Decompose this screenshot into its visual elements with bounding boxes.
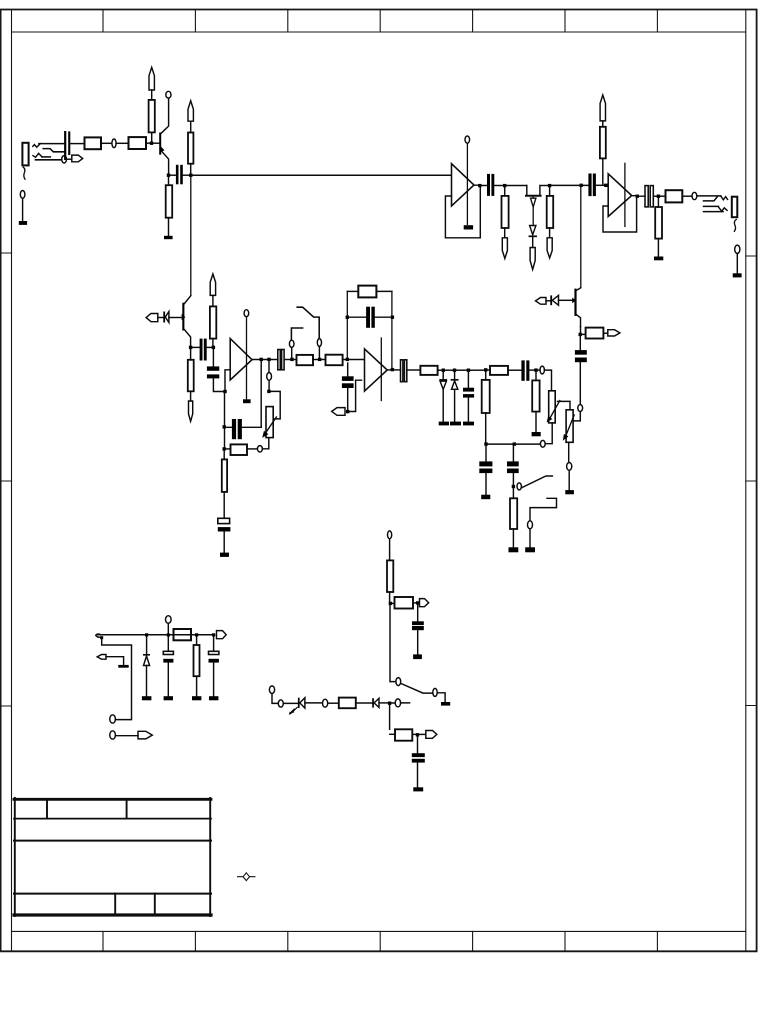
capacitor C7 plate 1 (hollow) xyxy=(278,350,281,370)
junction clip node 3 xyxy=(467,369,470,372)
capacitor C5 plate 2 xyxy=(238,419,242,439)
wire node2 to node3 xyxy=(456,369,466,371)
capacitor C6 plate 1 (hollow) xyxy=(218,518,230,523)
transistor Q3 bar xyxy=(574,289,576,316)
junction C5 left xyxy=(223,425,226,428)
wire node to R17 xyxy=(512,488,514,498)
junction Q3 emitter xyxy=(579,333,582,336)
resistor R26 xyxy=(339,698,356,709)
wire D4 to Q3 base xyxy=(559,299,572,301)
wire SW4 throw to ground xyxy=(437,693,445,702)
resistor R3 xyxy=(149,100,155,132)
resistor R5 xyxy=(188,133,193,164)
diode D1 triangle xyxy=(165,312,169,323)
net flag input sleeve (right) xyxy=(72,155,83,162)
wire CON1 to ground xyxy=(22,198,24,221)
wire C8 to right rail xyxy=(375,316,390,318)
resistor R10 xyxy=(297,355,314,365)
wire R8 to circle xyxy=(247,448,257,450)
wire node D to R10 xyxy=(294,359,297,361)
node circle SW4 pole xyxy=(396,678,401,686)
jack J2 sleeve line 1 xyxy=(704,205,719,207)
title block outer frame xyxy=(14,798,211,801)
net flag (C9 bottom, left) xyxy=(332,408,345,416)
jack J2 sleeve line 2 xyxy=(704,211,724,213)
wire bus segment 1 xyxy=(488,443,512,445)
diode D5 bar xyxy=(529,235,536,237)
wire circle to ground xyxy=(568,470,570,490)
wire R10 to node E xyxy=(313,359,318,361)
junction clip node 1 xyxy=(442,369,445,372)
capacitor C17 plate 1 xyxy=(588,174,591,197)
node circle bus right xyxy=(540,440,545,447)
Q2 emitter lead xyxy=(184,330,190,346)
wire U0 power to ground xyxy=(466,143,468,224)
wire arrow to R6 xyxy=(212,295,214,306)
wire C21 to ground xyxy=(167,663,169,696)
title block row line 3 xyxy=(14,893,211,895)
CON2 node circle xyxy=(735,245,740,253)
diode D3 bar xyxy=(452,379,458,381)
supply arrow up (U3 bias) xyxy=(600,95,605,121)
ground D8 xyxy=(142,696,152,700)
capacitor C1 plate 2 xyxy=(68,131,70,155)
jack J1 tip contact zigzag xyxy=(33,144,40,148)
wire bus segment 2 xyxy=(516,443,540,445)
resistor R11 xyxy=(326,355,343,366)
wire C5 to U1-out drop xyxy=(242,426,261,428)
junction node H xyxy=(503,184,506,187)
wire node H to J-FET xyxy=(507,185,527,187)
junction P1 wiper xyxy=(267,390,270,393)
wire SW3 circle to ground xyxy=(529,529,531,547)
capacitor C3 plate 1 xyxy=(200,339,203,361)
switch SW3 throw bracket xyxy=(530,498,557,521)
wire C14 down xyxy=(512,473,514,485)
junction bus left xyxy=(484,442,487,445)
capacitor C4 plate 2 xyxy=(207,374,219,378)
wire U2 out to C10 xyxy=(394,369,400,371)
junction base divider xyxy=(150,142,153,145)
diode D5 triangle (apex down) xyxy=(530,226,536,235)
node circle rail return xyxy=(110,715,116,723)
wire C22 to ground xyxy=(213,663,215,696)
wire D6 to circle3 xyxy=(305,702,323,704)
node circle P1 wiper xyxy=(267,373,272,381)
CON1 sleeve hook xyxy=(23,167,25,179)
ground P3 xyxy=(565,490,574,494)
wire U2 output xyxy=(387,369,390,371)
node circle Q1 collector xyxy=(166,91,171,98)
output connector CON2 xyxy=(732,197,738,218)
resistor R4 xyxy=(166,185,173,218)
Q1 emitter arrow xyxy=(161,146,165,152)
wire C13 to ground xyxy=(485,473,487,494)
junction node G xyxy=(534,368,537,371)
diode D1 cathode bar xyxy=(163,312,165,323)
net flag (node N right) xyxy=(426,731,437,739)
resistor R16 xyxy=(532,380,539,411)
wire node K down to switch xyxy=(390,605,396,681)
right margin row ticks xyxy=(746,256,757,706)
wire junction to C15 xyxy=(579,336,581,350)
capacitor C20 plate 2 xyxy=(412,759,425,763)
wire C7 to node D xyxy=(284,359,290,361)
junction feedback right xyxy=(391,316,394,319)
ground SW3 xyxy=(525,547,535,552)
wire main line to buffer U1 xyxy=(193,174,452,176)
junction U0 out xyxy=(478,184,481,187)
net flag (node L right) xyxy=(420,599,429,607)
diode D4 triangle xyxy=(552,295,558,305)
wire R2 to Q1 base xyxy=(146,142,159,144)
op-amp U1 triangle xyxy=(230,339,252,380)
wire CON2 to ground xyxy=(736,254,738,274)
wire circle corner xyxy=(272,694,278,704)
wire JFET to node I xyxy=(541,185,548,187)
capacitor C16 plate 1 xyxy=(487,174,490,196)
wire flag to D4 xyxy=(546,300,550,302)
wire node J to R23 xyxy=(660,195,665,197)
wire P1wiper-chain to P3 top xyxy=(558,401,571,409)
wire circle4 stub xyxy=(391,702,409,704)
jack J2 tip zigzag xyxy=(721,196,728,200)
op-amp U0 triangle (buffer) xyxy=(452,164,475,206)
net flag (aux, left) xyxy=(97,655,106,660)
wire circle2 to D6 xyxy=(283,702,298,704)
capacitor C22 plate 2 xyxy=(209,659,219,663)
wire U1 out down to C5 line xyxy=(260,361,262,427)
top margin column ticks xyxy=(103,10,657,33)
wire C19 to ground xyxy=(417,630,419,654)
wire circle to rail xyxy=(167,623,169,633)
junction node B xyxy=(212,346,215,349)
wire R5 to node A xyxy=(190,164,192,174)
left margin row ticks xyxy=(1,253,12,706)
feedback right rail xyxy=(391,291,393,367)
wire junction to D8 xyxy=(146,637,148,655)
wire node C down xyxy=(224,393,226,447)
wire R6 to node B xyxy=(212,339,214,346)
wire node4 to R14 xyxy=(485,372,487,380)
wire U1 power to ground xyxy=(246,317,248,399)
capacitor C12 plate 2 xyxy=(526,360,529,380)
resistor R19 xyxy=(502,196,509,228)
capacitor C19 plate 2 xyxy=(412,626,424,630)
diode D7 cathode bar xyxy=(372,698,374,707)
potentiometer P3 body xyxy=(566,410,573,443)
input connector CON1 xyxy=(22,143,28,166)
resistor R23 xyxy=(666,190,683,202)
capacitor C20 plate 1 xyxy=(412,753,425,757)
wire C9 to junction xyxy=(347,388,349,410)
junction U3 out xyxy=(636,195,639,198)
junction Q2 emitter xyxy=(189,346,192,349)
potentiometer P2 body xyxy=(549,391,556,423)
junction node I xyxy=(548,184,551,187)
supply arrow up (node A) xyxy=(188,101,193,121)
wire junction to C21 xyxy=(167,637,169,652)
node circle bias 2 xyxy=(278,700,283,707)
wire U3 out xyxy=(632,195,645,198)
wire arrow to R3 xyxy=(151,90,153,100)
wire node E to R11 xyxy=(321,359,325,361)
node circle bias input xyxy=(269,686,274,694)
capacitor C3 plate 2 xyxy=(204,339,207,361)
resistor R29 xyxy=(194,645,200,676)
capacitor C19 plate 1 xyxy=(412,621,424,625)
diode D7 triangle xyxy=(374,698,379,707)
diode D2 bar xyxy=(440,379,446,381)
wire node J to R22 xyxy=(657,198,659,207)
ground C20 xyxy=(413,787,423,791)
junction U1 out 2 xyxy=(267,358,270,361)
wire R1 to node xyxy=(101,142,112,144)
U3 crossing line xyxy=(624,163,626,226)
capacitor C8 plate 1 xyxy=(366,307,370,328)
ground C19 xyxy=(413,654,422,659)
capacitor C21 plate 2 xyxy=(163,659,173,663)
node circle supply top xyxy=(388,531,392,539)
wire circle3 to R26 xyxy=(328,702,339,704)
wire corner into R27 xyxy=(390,733,395,735)
diode D3 wire from node2 xyxy=(454,372,456,380)
wire circle to node E xyxy=(318,346,320,357)
wire C6 to ground xyxy=(223,532,225,553)
wire emitter to R4 xyxy=(168,177,170,185)
ground below C6 xyxy=(220,553,229,557)
net flag (R18 right) xyxy=(608,330,620,336)
J1 tip spring contact xyxy=(43,149,64,152)
wire R26 to D7 xyxy=(356,702,373,704)
wire D8 to ground xyxy=(146,666,148,697)
net flag (rail end, right) xyxy=(217,631,227,639)
junction node D xyxy=(290,358,293,361)
capacitor C6 plate 2 xyxy=(218,527,231,531)
ground input sleeve xyxy=(19,221,27,225)
wire bus left to C13 xyxy=(485,446,487,462)
wire node1 to node2 xyxy=(445,369,453,371)
wire C11 to ground xyxy=(467,398,469,422)
junction feedback left xyxy=(346,316,349,319)
wire node I to C17 xyxy=(551,184,588,186)
title block bottom row dividers xyxy=(115,894,155,915)
resistor R27 xyxy=(395,729,412,740)
ground D2 xyxy=(439,422,449,426)
ground D3 xyxy=(450,422,461,426)
supply arrow up (Q1 collector) xyxy=(149,67,154,90)
wire D3 to ground xyxy=(454,389,456,421)
J1 sleeve line xyxy=(35,159,61,161)
resistor R9 xyxy=(222,459,227,492)
node circle output xyxy=(692,192,697,199)
junction main node A xyxy=(189,174,192,177)
wire node N to C20 xyxy=(417,737,419,754)
wire node G to circle xyxy=(538,369,540,371)
capacitor C7 plate 2 (hollow) xyxy=(282,350,285,370)
capacitor C5 plate 1 xyxy=(232,419,236,439)
junction R29 top xyxy=(195,633,198,636)
resistor R1 xyxy=(85,137,102,149)
ground U1 xyxy=(243,399,251,403)
capacitor C2 plate 1 xyxy=(176,165,179,185)
ground C13 xyxy=(481,495,490,500)
wire main line down to Q3 xyxy=(580,187,582,287)
junction node C xyxy=(223,390,226,393)
node circle SW2 pole xyxy=(517,483,521,490)
title block row line 2 xyxy=(14,840,211,842)
JFET Q4 channel bar xyxy=(526,195,541,197)
wire to R12 xyxy=(347,290,358,292)
wire R16 to ground xyxy=(535,412,537,432)
wire left rail to C8 xyxy=(349,316,366,318)
node circle above D xyxy=(289,340,294,347)
Q2 base arrow xyxy=(182,314,186,321)
wire junction to U2 lower input xyxy=(350,380,362,411)
ground U0 xyxy=(464,225,473,229)
junction node F (U2 in) xyxy=(346,358,349,361)
net flag (Q2 base, left) xyxy=(146,314,158,322)
wire D5 down xyxy=(532,236,534,247)
wire U1 output xyxy=(252,359,278,361)
capacitor C1 plate 1 xyxy=(64,131,66,160)
capacitor C2 plate 2 xyxy=(180,165,183,185)
capacitor C14 plate 2 xyxy=(507,469,519,474)
wire R3 to base junction xyxy=(151,132,153,141)
wire C20 to ground xyxy=(417,763,419,788)
capacitor C15 plate 2 xyxy=(575,358,587,363)
Q1 collector lead xyxy=(161,98,168,133)
wire circle to R24 xyxy=(389,539,391,561)
node circle above C21 xyxy=(166,616,172,624)
capacitor C21 plate 1 (hollow) xyxy=(163,651,173,654)
junction node J xyxy=(657,195,660,198)
ground R17 xyxy=(509,547,519,552)
junction rail start xyxy=(100,636,103,639)
resistor R21 xyxy=(600,127,606,159)
wire circle to P2 top xyxy=(544,370,551,391)
photodiode D6 cathode bar xyxy=(298,698,300,708)
wire node N to flag xyxy=(419,733,426,735)
wire junction to R18 xyxy=(581,327,586,335)
wire node3 to node4 xyxy=(470,369,484,371)
resistor R18 xyxy=(586,328,604,339)
capacitor C9 plate 2 xyxy=(342,383,354,388)
jack J2 tip contact xyxy=(704,196,718,201)
wire R17 to ground xyxy=(512,529,514,547)
Q3 collector lead xyxy=(577,288,581,291)
capacitor C9 plate 1 xyxy=(342,376,354,381)
wire junction to C3 xyxy=(192,346,199,348)
wire junction2 to wiper circle xyxy=(268,361,270,372)
wire C15 to circle xyxy=(579,362,581,404)
wire bus mid to C14 xyxy=(512,446,514,462)
wire node I to R20 xyxy=(549,187,551,196)
ground C11 xyxy=(463,422,474,426)
wire R15 to C12 xyxy=(508,369,521,371)
title block row line 1 xyxy=(14,818,211,820)
op-amp U2 triangle xyxy=(365,349,388,391)
wire U0 out xyxy=(474,184,487,186)
Q3 emitter lead xyxy=(577,315,581,327)
node circle P3 bottom xyxy=(567,463,572,471)
wire node3 to C11 xyxy=(467,372,469,388)
wire flag to stub ground xyxy=(106,657,124,665)
junction D8 top xyxy=(145,633,148,636)
resistor R7 xyxy=(188,360,194,392)
node circle N1 xyxy=(112,139,116,148)
P3 wiper arrow line xyxy=(566,415,575,437)
junction switch node xyxy=(512,485,515,488)
wire junction to R8 xyxy=(226,448,231,450)
wire C1 to R1 xyxy=(70,143,84,145)
node circle bias 3 xyxy=(323,699,328,707)
wire R13 to clip nodes xyxy=(438,369,442,371)
resistor R2 xyxy=(129,137,147,149)
P1 wiper arrow line xyxy=(265,417,276,434)
Q3 base arrow xyxy=(572,298,576,304)
CON2 sleeve hook xyxy=(734,220,736,232)
U3 feedback box xyxy=(603,198,637,232)
wire circle to jack J2 xyxy=(697,195,721,197)
wire node A down to Q2 collector xyxy=(190,177,192,296)
Q2 collector lead xyxy=(184,296,190,304)
J1 ring contact zigzag xyxy=(33,153,42,157)
wire node F to U2 xyxy=(349,359,364,361)
resistor R14 xyxy=(482,380,490,413)
supply arrow up (node B) xyxy=(210,274,215,295)
capacitor C18 plate 2 (hollow) xyxy=(650,186,653,207)
capacitor C12 plate 1 xyxy=(521,360,524,380)
capacitor C13 plate 2 xyxy=(479,469,492,474)
transistor Q2 bar xyxy=(182,303,184,331)
junction below C9 xyxy=(346,410,349,413)
node circle Q3 chain xyxy=(578,405,583,412)
junction main line (Q3 feed) xyxy=(580,184,583,187)
wire arrow to R21 xyxy=(602,121,604,127)
junction node N xyxy=(416,733,419,736)
resistor R13 xyxy=(420,366,437,375)
ground CON2 xyxy=(733,273,742,277)
wire R29 to ground xyxy=(196,676,198,696)
wire C17 to U3 xyxy=(596,184,608,186)
node circle R8 right xyxy=(257,446,262,452)
net flag (aux out, right) xyxy=(138,731,152,739)
JFET Q4 gate wire xyxy=(532,197,534,226)
wire R4 to ground xyxy=(168,218,170,236)
capacitor C18 plate 1 (hollow) xyxy=(645,186,648,207)
U2 crossing line xyxy=(380,338,382,401)
resistor R25 xyxy=(395,597,414,609)
ground R22 xyxy=(654,257,663,261)
wire D2 to ground xyxy=(442,389,444,421)
wire C3 to node B xyxy=(207,346,212,348)
ground Q1 emitter xyxy=(164,236,173,239)
wire circle to flag xyxy=(67,158,72,160)
capacitor C22 plate 1 (hollow) xyxy=(209,651,219,654)
junction bus mid xyxy=(513,442,516,445)
junction clip node 2 xyxy=(453,369,456,372)
arrow down (below R7) xyxy=(188,401,192,421)
arrow down (below R20) xyxy=(547,238,552,258)
wire J1 tip to C1 xyxy=(39,143,64,145)
P2 wiper arrow line xyxy=(549,401,560,420)
switch SW1 pole bracket xyxy=(291,328,302,340)
CON1 node circle xyxy=(20,191,25,199)
wire node K to R25 xyxy=(392,602,394,604)
wire node F down to C9 xyxy=(347,363,349,376)
wire Q2 emitter junction to R7 xyxy=(190,349,192,360)
